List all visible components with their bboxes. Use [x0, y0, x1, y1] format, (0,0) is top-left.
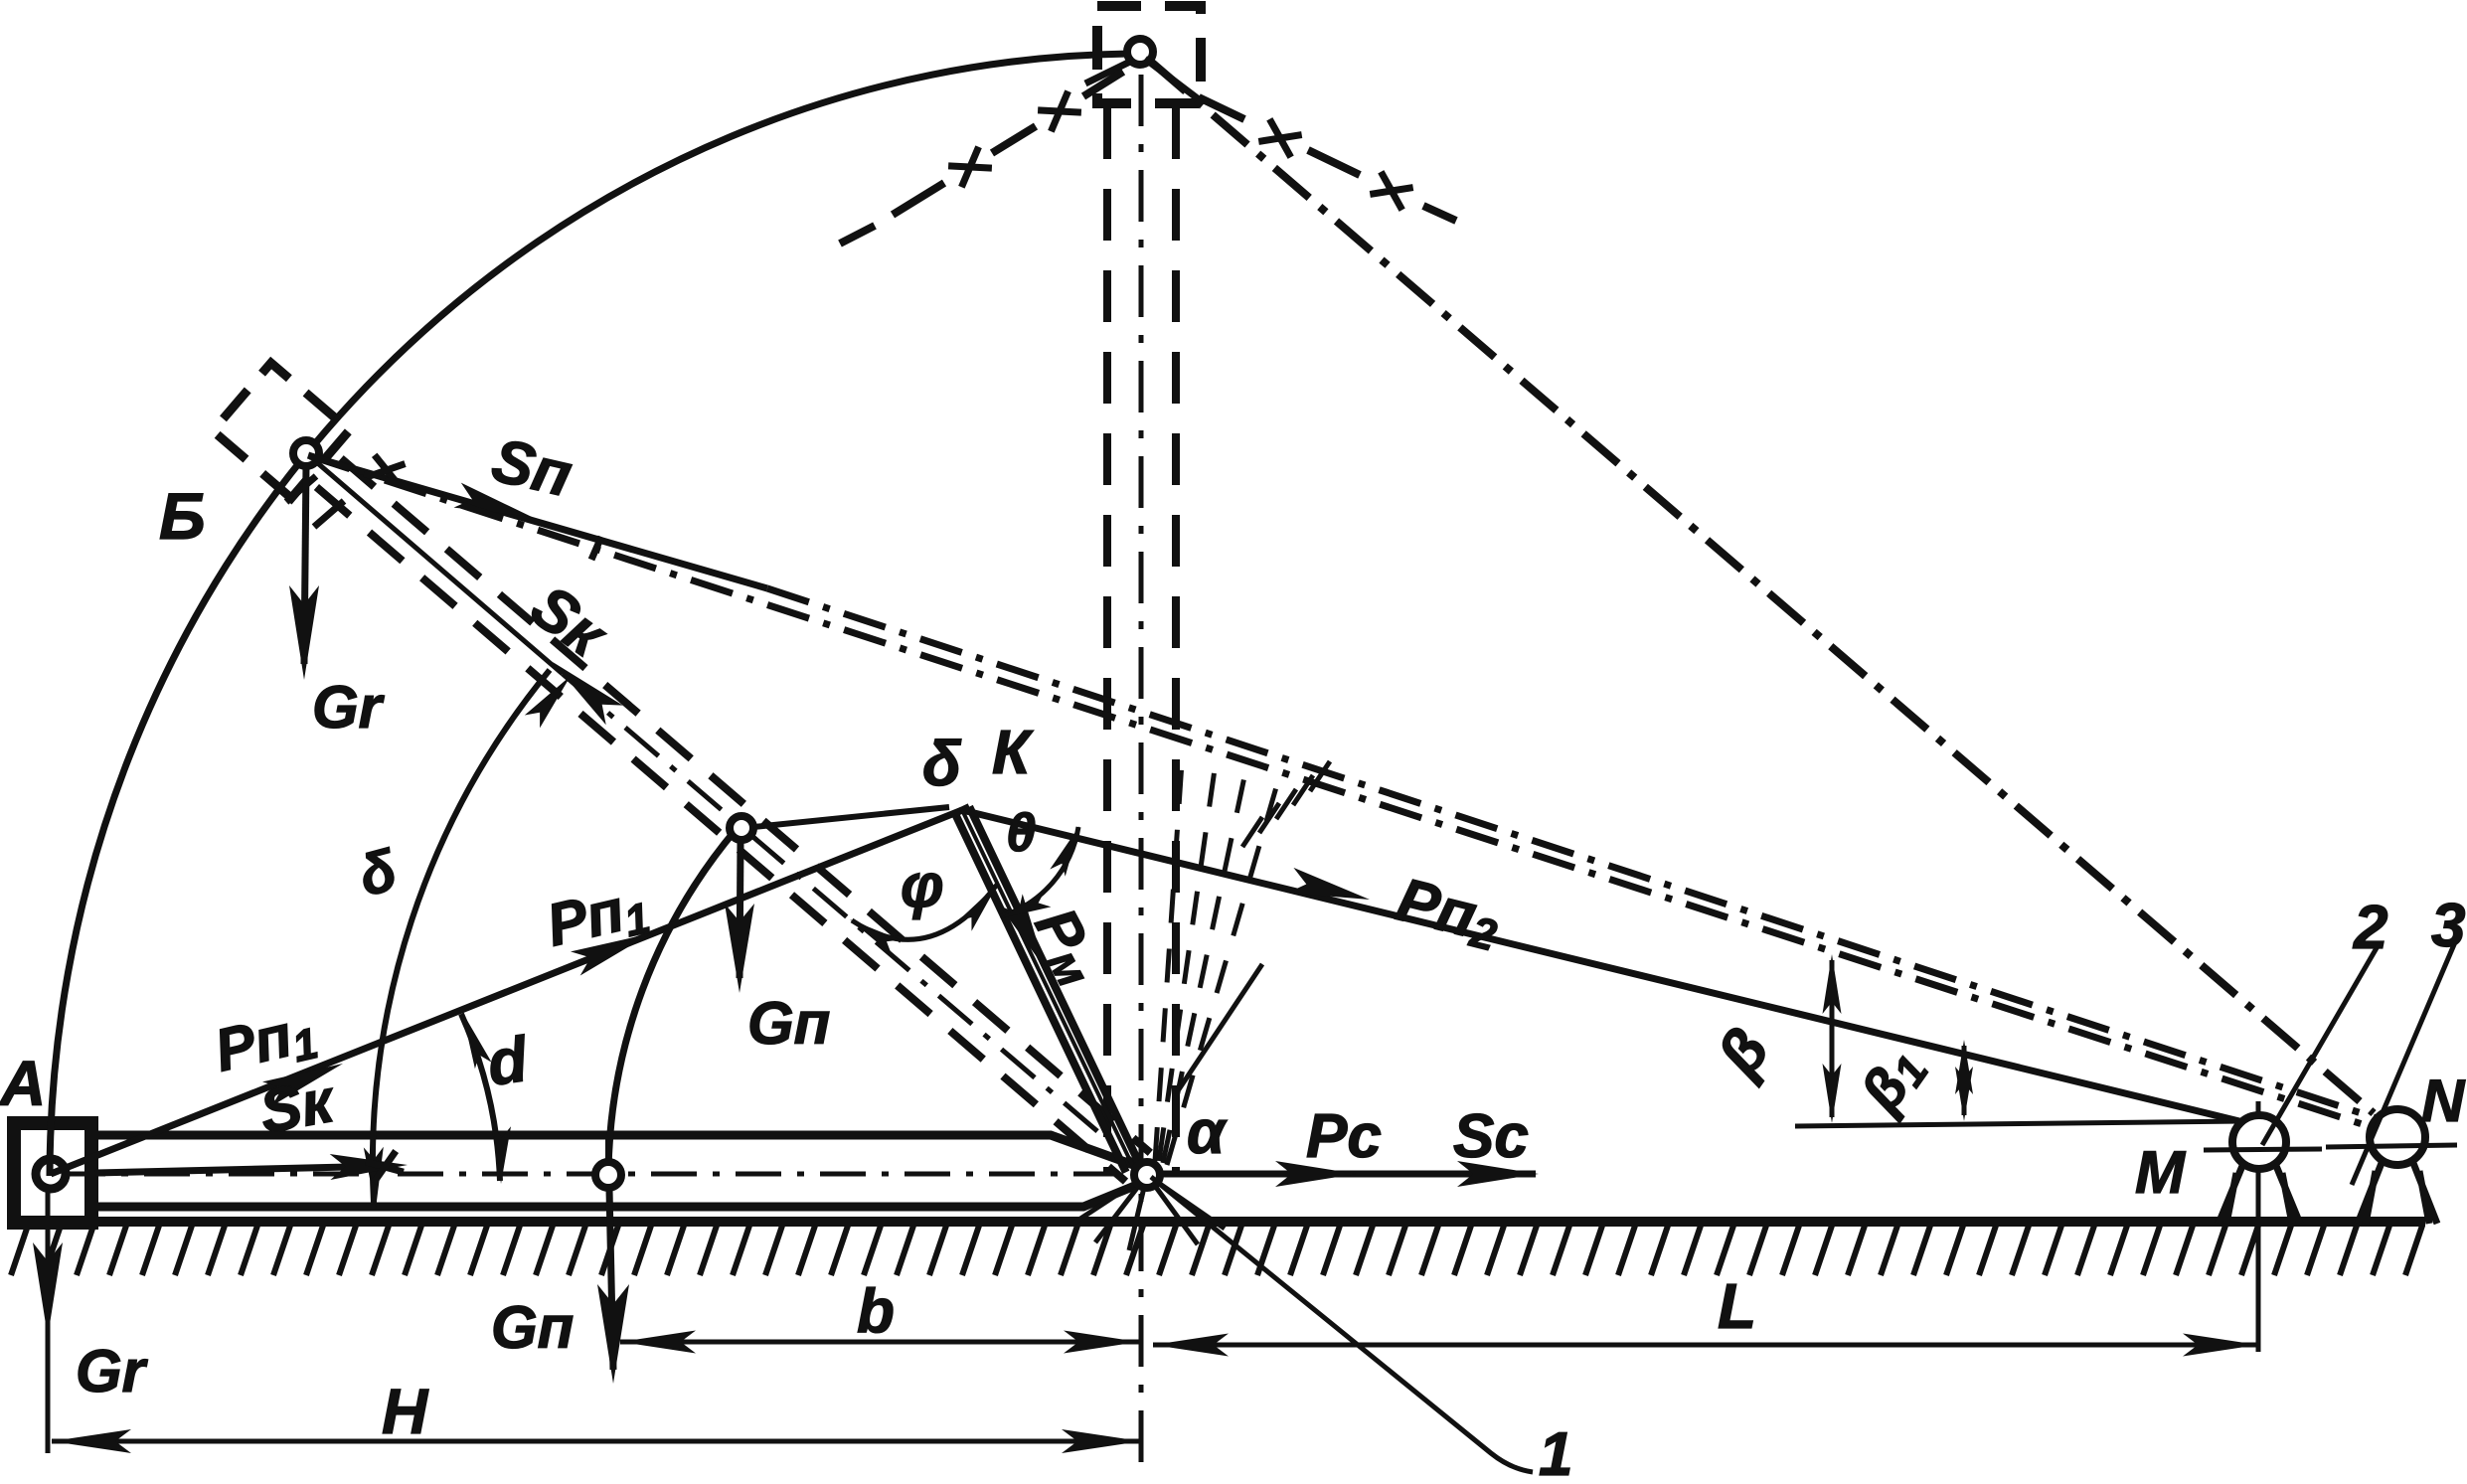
strut K edge 2	[955, 813, 1126, 1172]
svg-text:θ: θ	[1006, 803, 1036, 863]
force arrowhead Gr at A	[33, 1242, 63, 1337]
svg-text:Sс: Sс	[1453, 1102, 1529, 1171]
vertical mast centreline dash-dot	[1139, 75, 1144, 1463]
beta1 double arrow line	[1962, 1046, 1967, 1115]
rope Sn solid	[310, 456, 767, 588]
top sling left	[1085, 60, 1134, 83]
svg-text:2: 2	[2353, 894, 2387, 962]
rope top to N dash-dot	[1151, 62, 2374, 1113]
box at intermediate top dashed	[213, 363, 350, 498]
rope Б continuation to N dash-dot	[767, 588, 2385, 1121]
force arrowhead Sk	[330, 1154, 408, 1180]
svg-text:3: 3	[2431, 892, 2465, 960]
rope A to K	[51, 810, 962, 1174]
leader line part 2	[2262, 946, 2378, 1145]
label Sk' prime tick	[591, 537, 601, 560]
force arrowhead Pc	[1275, 1161, 1357, 1187]
force arrowhead Sn	[454, 483, 533, 517]
angle arc theta	[1001, 827, 1078, 916]
svg-text:φ: φ	[901, 852, 944, 920]
svg-text:α: α	[1187, 1098, 1228, 1167]
svg-text:Gr: Gr	[76, 1338, 149, 1404]
base pivot circle	[1134, 1162, 1160, 1188]
CG circle horizontal position	[595, 1162, 621, 1188]
force arrowhead Sc	[1457, 1161, 1539, 1187]
tick on mast edge 2	[314, 501, 344, 527]
x mark right guy 2	[1381, 172, 1401, 210]
vertical mast right edge dashed	[1172, 107, 1180, 1173]
anchor M sheave circle	[2232, 1115, 2286, 1169]
dimension L arrow left	[1153, 1334, 1229, 1357]
mast horizontal bottom edge	[95, 1185, 1137, 1207]
arrowhead beta down	[1823, 1064, 1842, 1123]
mast horizontal top edge	[95, 1135, 1139, 1167]
arrowhead beta1 down	[1955, 1067, 1973, 1121]
support block A	[14, 1123, 91, 1223]
tackle fan dashed 4	[1167, 787, 1276, 1165]
rope K to M	[962, 810, 2239, 1121]
arrowhead phi left	[850, 919, 901, 954]
tackle fan dashed 1	[1155, 747, 1183, 1161]
x mark right guy 1	[1269, 119, 1290, 157]
force arrowhead Gn inclined	[725, 904, 754, 993]
ground hatching	[11, 1226, 2422, 1275]
tackle fan dashed 3	[1163, 767, 1246, 1163]
vertical mast left edge dashed	[1103, 107, 1111, 1173]
CG circle inclined position	[730, 816, 753, 840]
tackle lashing ticks lower	[1179, 964, 1262, 1089]
anchor M centre dash	[2204, 1149, 2322, 1150]
strut K axis	[962, 810, 1135, 1171]
dimension b arrow left	[620, 1331, 696, 1354]
arrowhead beta1 up	[1955, 1040, 1973, 1094]
force line Gn inclined	[740, 841, 740, 978]
force arrowhead Pn2	[1287, 868, 1370, 900]
x mark left guy 2	[948, 166, 992, 168]
tackle lashing ticks upper	[1242, 761, 1330, 847]
left guy dashed	[840, 72, 1123, 244]
force arrowhead Gr at Б	[289, 585, 319, 680]
trajectory arc of mast top	[50, 54, 1129, 1176]
anchor M vertical line	[2256, 1101, 2261, 1352]
force arrowhead Pm on strut	[1000, 894, 1047, 969]
vertical through CG horizontal	[605, 1135, 611, 1161]
force line Gr at Б	[304, 465, 306, 664]
dimension H arrow right	[1062, 1429, 1141, 1453]
dimension H line	[52, 1439, 1141, 1444]
angle arc at A	[461, 1014, 500, 1181]
svg-text:Pс: Pс	[1306, 1102, 1382, 1171]
base hinge rays	[1071, 1175, 1225, 1250]
anchor N sheave circle	[2370, 1109, 2425, 1165]
force line Pc Sc	[1161, 1171, 1536, 1178]
force line Sk	[95, 1166, 388, 1173]
inclined mast upper edge dashed	[341, 458, 1150, 1153]
arrowhead beta up	[1823, 954, 1842, 1014]
svg-text:Gп: Gп	[491, 1294, 574, 1361]
leader line part 1	[1151, 1177, 1533, 1472]
svg-text:М: М	[2135, 1139, 2187, 1206]
tick on mast edge 1	[286, 476, 316, 502]
anchor N support legs	[2358, 1158, 2437, 1224]
force arrowhead Pn1 upper	[571, 933, 651, 976]
x mark on Sk	[366, 1162, 404, 1172]
top counterweight box dashed	[1097, 6, 1201, 103]
svg-text:b: b	[857, 1277, 895, 1346]
x mark on Sn	[375, 455, 400, 485]
svg-text:Gr: Gr	[312, 674, 386, 741]
svg-text:Gп: Gп	[747, 990, 830, 1057]
arrowhead angle arc at A upper	[462, 1012, 492, 1069]
dimension H arrow left	[52, 1429, 131, 1453]
svg-text:К: К	[992, 719, 1034, 787]
dimension b line	[620, 1340, 1139, 1345]
inclined mast lower edge dashed	[316, 487, 1125, 1182]
arrowhead angle arc at A lower	[493, 1126, 511, 1184]
svg-text:δ: δ	[922, 728, 962, 799]
svg-text:N: N	[2421, 1068, 2466, 1134]
inclined mast axis dash-dot part	[563, 674, 1139, 1167]
svg-text:Н: Н	[382, 1376, 429, 1447]
arc end arrowhead at axis	[525, 676, 571, 728]
svg-text:Sк: Sк	[254, 1067, 340, 1147]
ground line	[10, 1217, 2425, 1227]
trajectory arc of centre of gravity	[608, 830, 736, 1173]
x mark left guy 1	[1038, 110, 1081, 112]
svg-text:А: А	[0, 1048, 46, 1119]
dimension b arrow right	[1064, 1331, 1139, 1354]
top pivot circle	[1127, 39, 1153, 65]
svg-text:L: L	[1718, 1270, 1756, 1342]
force arrowhead Pn1 lower	[262, 1064, 343, 1106]
right guy dashed	[1199, 97, 1456, 221]
arrowhead angle arc lower	[364, 1147, 384, 1209]
arrowhead phi right	[958, 884, 998, 931]
mast axis dash-dot centreline	[60, 1172, 1135, 1177]
beta double arrow line	[1830, 960, 1835, 1117]
strut K top cap	[955, 807, 969, 814]
arrowhead theta upper	[1050, 826, 1079, 877]
strut K edge 1	[969, 807, 1140, 1166]
force line Gn horizontal	[609, 1189, 613, 1370]
pivot circle A	[36, 1159, 66, 1189]
force arrowhead Sk' on axis	[553, 662, 623, 725]
arrowhead theta lower	[1000, 892, 1051, 918]
extension line at A for H	[46, 1185, 51, 1453]
angle arc phi	[852, 885, 997, 939]
top sling right	[1145, 59, 1203, 102]
pivot circle at Б	[293, 440, 319, 466]
beta reference line	[1795, 1121, 2242, 1126]
anchor M support legs	[2219, 1161, 2300, 1224]
leader line part 3	[2352, 942, 2455, 1185]
link K to CG inclined	[753, 807, 949, 827]
angle arc of mast inclination	[373, 670, 550, 1204]
tackle fan dashed 2	[1159, 755, 1217, 1161]
dimension L arrow right	[2183, 1334, 2258, 1357]
anchor N centre dash	[2326, 1145, 2457, 1147]
svg-text:1: 1	[1539, 1420, 1572, 1479]
dimension L line	[1153, 1343, 2258, 1348]
svg-text:Б: Б	[159, 479, 206, 553]
inclined mast axis solid part	[306, 453, 563, 674]
force arrowhead Gn horizontal	[597, 1284, 629, 1384]
rope Б to N dash-dot	[308, 455, 2384, 1131]
